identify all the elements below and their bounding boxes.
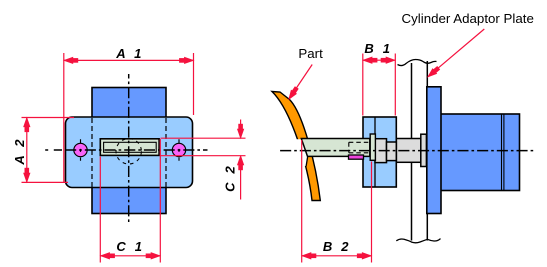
svg-text:C 2: C 2 xyxy=(223,165,238,192)
cylinder internal line xyxy=(501,114,503,191)
band trim (white) xyxy=(288,139,308,166)
pusher block xyxy=(363,117,396,187)
leader Part xyxy=(287,65,312,101)
dimension C2 xyxy=(161,120,246,200)
rod bushing at plate xyxy=(421,134,427,166)
svg-text:Cylinder Adaptor Plate: Cylinder Adaptor Plate xyxy=(402,11,534,26)
adaptor plate left edge xyxy=(411,63,413,241)
dimension A2 xyxy=(22,118,75,183)
screw right xyxy=(172,139,185,160)
centerline horizontal xyxy=(45,149,207,151)
svg-text:A 1: A 1 xyxy=(115,46,142,61)
break line bottom xyxy=(396,239,440,243)
screw left xyxy=(74,139,87,160)
slot outer xyxy=(100,139,159,156)
svg-text:B 2: B 2 xyxy=(323,239,350,254)
block (dark blue rectangle behind plate) xyxy=(92,88,166,214)
hidden circle (dashed) xyxy=(116,139,141,164)
adaptor plate right edge xyxy=(426,61,428,241)
break line top xyxy=(398,60,437,66)
svg-text:A 2: A 2 xyxy=(12,138,27,165)
dimension B2 xyxy=(302,140,372,263)
dimension A1 xyxy=(64,53,194,183)
band edge below rod xyxy=(306,157,308,166)
rod nut 2 xyxy=(387,142,397,161)
centerline vertical xyxy=(128,74,130,222)
hidden edge right (dashed) xyxy=(165,118,167,187)
hidden edge left (dashed) xyxy=(91,118,93,187)
rod nut 1 xyxy=(375,139,387,163)
svg-text:Part: Part xyxy=(298,46,323,61)
svg-text:C 1: C 1 xyxy=(116,239,143,254)
clamp strip (magenta) xyxy=(349,155,364,159)
hidden thread in rod (dashed) xyxy=(349,142,370,153)
block internal line xyxy=(374,117,376,187)
cylinder body xyxy=(440,114,520,191)
cylinder flange xyxy=(427,87,441,214)
push rod (green) xyxy=(301,139,370,157)
part (orange band) xyxy=(272,92,320,201)
piston rod through plate xyxy=(396,139,421,163)
rod collar xyxy=(370,134,375,160)
slot inner xyxy=(104,142,157,152)
dimension C1 xyxy=(100,139,160,263)
plate (light blue rounded) xyxy=(66,117,193,188)
leader Cylinder Adaptor Plate xyxy=(427,29,485,79)
centerline side view xyxy=(280,150,533,152)
svg-text:B 1: B 1 xyxy=(364,41,391,56)
dimension B1 xyxy=(363,54,396,116)
